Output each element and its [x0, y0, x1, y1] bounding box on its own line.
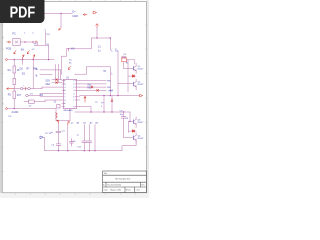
wire staircase y66.8 [87, 66, 111, 68]
wire from D1 right [126, 60, 134, 64]
node base Q3 [129, 121, 130, 122]
transistor Q1 [133, 63, 136, 73]
svg-text:B-: B- [36, 76, 39, 78]
wire cap chain low [58, 145, 60, 150]
wire stub cap [68, 49, 70, 51]
svg-text:6: 6 [64, 94, 65, 96]
svg-text:5: 5 [73, 94, 74, 96]
wire drop x48.5 [48, 45, 50, 59]
wire corner x130 [129, 112, 131, 121]
wire from F1 [20, 41, 37, 43]
svg-text:2: 2 [64, 81, 65, 83]
IC pin wire 1 [42, 86, 63, 88]
port arrow right end [140, 94, 143, 96]
wire x60.6 drop [60, 70, 62, 79]
border zone ticks top [60, 0, 135, 1]
svg-text:6: 6 [73, 97, 74, 99]
component row3 [29, 100, 35, 103]
red X on net row3 [91, 86, 93, 88]
port circle left rail [6, 59, 8, 61]
power flag bottom-mid 1 [57, 120, 59, 123]
wire x112 drop [111, 96, 113, 112]
wire base Q4 [124, 136, 134, 138]
wire bus y112 [75, 111, 130, 113]
svg-text:9: 9 [64, 103, 65, 105]
power flag on y95 [111, 99, 113, 102]
schematic sheet [2, 1, 146, 192]
wire stub x22.4 [21, 60, 23, 65]
transistor Q4 [133, 133, 136, 143]
svg-text:4K7: 4K7 [17, 94, 22, 97]
svg-text:Document Number: Document Number [107, 183, 122, 186]
wire J1 stub [7, 41, 8, 43]
IC left pin stubs [62, 81, 65, 107]
IC right pin net wires [80, 81, 106, 91]
wire x104 drop [103, 96, 105, 112]
resistor R1 [13, 66, 16, 73]
svg-text:8: 8 [73, 106, 74, 108]
svg-text:PDF: PDF [10, 4, 36, 21]
svg-text:Date:: Date: [104, 189, 109, 192]
capacitor C15 plates [56, 144, 61, 145]
svg-text:8: 8 [64, 100, 65, 102]
wire staircase up [66, 49, 68, 56]
wire bead row [13, 88, 42, 90]
svg-text:SDA: SDA [45, 83, 50, 86]
svg-text:GND: GND [72, 14, 78, 18]
wire horizontal y45 [34, 44, 48, 46]
port arrow left mid [7, 88, 14, 90]
capacitor C12 lower [88, 142, 90, 150]
IC pin numbers left [64, 81, 65, 106]
wire vert x58.5 [58, 65, 60, 83]
svg-text:BC807: BC807 [138, 138, 144, 140]
bottom gray strip [0, 193, 149, 198]
border zone ticks left [1, 25, 4, 172]
resistor R3 [13, 91, 16, 99]
node dot x110 [110, 37, 111, 38]
power flag PWR1 [59, 28, 61, 31]
capacitor C11 lower [83, 142, 85, 150]
wire stub y79.5 [52, 79, 62, 81]
title block outline [103, 171, 147, 193]
fuse F1 body [13, 39, 20, 46]
svg-text:7: 7 [64, 97, 65, 99]
svg-text:VIN: VIN [71, 49, 75, 51]
capacitor C10 plates [121, 117, 126, 118]
svg-text:RX: RX [40, 95, 44, 97]
svg-text:BC817: BC817 [138, 68, 144, 70]
page background [0, 0, 149, 198]
svg-text:D: D [2, 37, 4, 40]
polarity tick [35, 41, 37, 44]
svg-text:SCK: SCK [45, 81, 50, 83]
svg-text:U-: U- [47, 43, 50, 46]
svg-text:OUT: OUT [109, 90, 114, 92]
zener D1 red box [122, 58, 127, 62]
red arrow right pins [84, 96, 86, 102]
node dots y112 [90, 111, 124, 112]
svg-text:5: 5 [64, 90, 65, 92]
port arrow left top [83, 14, 87, 16]
transistor Q2 [133, 79, 136, 90]
node dots on rail [14, 59, 50, 60]
op IC U1 body [63, 79, 76, 108]
wire bottom-left rail [7, 108, 56, 110]
wire x56 drop [55, 109, 57, 121]
IC pin wire 4 [45, 99, 63, 101]
resistor R2 [13, 78, 16, 84]
red mark on row [24, 87, 26, 90]
wire staircase drop [75, 67, 87, 74]
node top junction [60, 13, 61, 14]
wire diode D3 left [129, 130, 133, 132]
svg-text:4: 4 [73, 90, 74, 92]
svg-text:MEGA88: MEGA88 [64, 109, 74, 112]
wire y38 [91, 37, 110, 39]
svg-text:PG: PG [8, 116, 11, 118]
svg-text:Rev: Rev [141, 184, 144, 186]
wire x123.5 vert upper [123, 62, 125, 69]
svg-text:2: 2 [73, 84, 74, 86]
wire long net y95.6 [80, 95, 140, 97]
port blue arrow [40, 136, 43, 139]
left gray strip [0, 0, 2, 198]
wire cap chain x58.5 [58, 123, 60, 131]
svg-text:PC: PC [12, 33, 16, 36]
wire port to rail [43, 137, 44, 150]
wire R2 down [13, 85, 15, 91]
power flag P3 [22, 55, 24, 60]
red X mark 1 [56, 79, 58, 81]
wire row2 [28, 95, 40, 97]
wire R3 to bottom rail [13, 99, 15, 109]
wire y120.5 [56, 120, 70, 122]
title block texts [103, 172, 144, 192]
ground flag G1 [14, 50, 16, 53]
right gray strip [147, 0, 149, 198]
wire pin drop x95 [94, 125, 96, 151]
port circle bottom rail [6, 108, 8, 110]
connector J1 port circle [8, 41, 10, 43]
red X mark 2 [56, 82, 58, 84]
transistor Q3 [133, 117, 136, 128]
capacitor C10 wire [123, 112, 125, 116]
border zone ticks right [145, 25, 148, 172]
wire R1-R2 [13, 73, 15, 78]
wire x123.5 lower vert [123, 125, 125, 137]
wire base Q1 [124, 67, 134, 69]
wire pin drop x84.3 [83, 125, 85, 141]
power flag P4 [33, 55, 35, 60]
bead L1 [20, 87, 23, 90]
wire y48.8 [67, 48, 92, 50]
wire from VCC [96, 28, 98, 39]
wire rail y59.6 [7, 59, 54, 61]
bead L2 [28, 87, 31, 90]
svg-text:MC Sample Test: MC Sample Test [116, 177, 131, 180]
wire bottom rail [45, 150, 123, 152]
PDF badge [0, 0, 45, 23]
node dots y95.6 [103, 95, 118, 96]
svg-text:7: 7 [73, 100, 74, 102]
wire drop x110.3 [109, 38, 111, 50]
node dot x68.5 [68, 48, 69, 49]
wire stub y82.5 [52, 82, 62, 84]
IC pin wire 2 [40, 93, 63, 95]
port flag right [93, 11, 96, 14]
capacitor C11 plates [82, 141, 87, 142]
wire diode D2 right [135, 75, 136, 77]
node dot y38 [96, 37, 97, 38]
svg-text:3: 3 [64, 84, 65, 86]
bead row2 component [26, 94, 29, 97]
svg-text:D+: D+ [72, 10, 76, 14]
svg-text:May 12, 2011: May 12, 2011 [111, 190, 122, 192]
wire base Q3 [129, 120, 134, 122]
power symbol VCC top [96, 24, 99, 28]
wire row3 [24, 101, 45, 103]
capacitor C10 lower wire [123, 118, 125, 125]
wire Q4 emitter to rail [122, 141, 136, 151]
svg-text:PGB: PGB [6, 47, 11, 50]
fuse F1 inner mark [15, 41, 18, 43]
node dot B [32, 41, 33, 42]
node dot A [24, 41, 25, 42]
wire y69.9 [40, 69, 61, 71]
wire vert x61.5 [61, 56, 63, 74]
wire base Q2 [118, 83, 133, 85]
wire drop from top rail [60, 14, 62, 28]
wire y38 corner down [90, 38, 92, 49]
node dots bottom rail [58, 150, 96, 151]
svg-text:SH: SH [21, 49, 25, 52]
IC pin numbers right [73, 81, 74, 109]
power flag mid red [68, 66, 70, 69]
svg-text:BC817: BC817 [138, 122, 144, 124]
node dot rail [14, 108, 15, 109]
label bottom pins row1 [77, 121, 99, 124]
wire top rail [44, 13, 72, 15]
wire x33.2 drop [32, 60, 34, 89]
capacitor C16 x71.5 [69, 139, 73, 146]
diode D2 red [132, 75, 134, 77]
wire bead drop [41, 87, 43, 89]
wire row2 to pin [39, 94, 41, 96]
svg-text:REF: REF [87, 88, 92, 90]
svg-text:Sheet: Sheet [126, 189, 131, 192]
wire x128 vert upper [127, 60, 129, 92]
wire corner to bus [37, 42, 39, 45]
ground flag G2 [27, 50, 29, 53]
wire diode D2 left [128, 75, 132, 77]
wire x110.3 lower vert [109, 67, 111, 96]
capacitor C14 plates [56, 131, 61, 132]
capacitor C5 plates [122, 56, 126, 57]
svg-text:3: 3 [73, 87, 74, 89]
svg-text:1 of 1: 1 of 1 [136, 190, 141, 192]
capacitor C12 plates [87, 141, 92, 142]
diode D3 red [132, 130, 134, 132]
wire row3 up [44, 100, 46, 102]
svg-text:1: 1 [73, 81, 74, 83]
crystal Y1 body [57, 104, 60, 108]
border zone ticks bottom [15, 193, 135, 195]
wire pin drop x89.3 [88, 125, 90, 141]
wire vert x55.5 [55, 65, 57, 80]
wire pin y106.6 [80, 107, 91, 112]
IC pin wire 3 [40, 96, 63, 98]
wire x128.6 vert lower [128, 121, 130, 132]
svg-text:4: 4 [64, 87, 65, 89]
wire y74.7 [40, 74, 52, 76]
svg-text:5V: 5V [103, 71, 106, 73]
wire cap chain mid [58, 133, 60, 144]
IC right pin stubs [75, 81, 79, 107]
wire diode D3 right [135, 130, 136, 132]
wire x70 drop [69, 109, 71, 121]
red X on net row4 [97, 89, 99, 91]
svg-text:AGND: AGND [12, 111, 19, 114]
wire x67.8 vert [67, 125, 69, 151]
wire x118 vert [117, 51, 119, 96]
wire to R1 [13, 60, 15, 66]
red squiggle thermistor [56, 112, 58, 118]
power flag bottom-mid 2 [68, 122, 70, 125]
svg-text:BC807: BC807 [138, 84, 144, 86]
wire y56 [62, 55, 67, 57]
svg-text:Title: Title [104, 172, 107, 175]
wire stub x45.7 [45, 31, 47, 45]
